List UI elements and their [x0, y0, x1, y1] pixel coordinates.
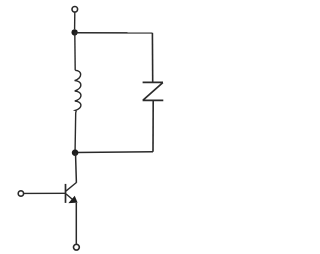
inductor L1 (4-hump coil) [75, 70, 81, 113]
wire (right branch upper lead) [151, 33, 153, 82]
node B (bottom junction dot) [72, 149, 79, 156]
transistor Q1 base bar [65, 184, 67, 203]
transistor Q1 emitter lead (diagonal with arrow) [66, 194, 73, 200]
terminal T2 (left base terminal, open circle) [18, 191, 23, 196]
transistor Q1 emitter arrowhead [69, 197, 77, 203]
wire (top terminal to top junction) [74, 12, 76, 29]
wire (emitter down to bottom terminal) [75, 203, 77, 244]
terminal T1 (top input terminal, open circle) [72, 7, 78, 13]
terminal T3 (bottom emitter terminal, open circle) [74, 244, 80, 250]
wire (base lead to left terminal) [24, 192, 66, 194]
wire (top rail, junction to right branch) [75, 32, 153, 34]
wire (right branch lower lead) [152, 101, 154, 152]
wire (bottom rail, right branch to bottom junction) [75, 151, 153, 154]
wire (top junction down to inductor) [74, 33, 76, 71]
zener diode D1 (Z-shaped breakdown element) [143, 82, 164, 100]
transistor Q1 collector lead (diagonal to base bar) [66, 183, 77, 192]
wire (inductor to bottom junction) [74, 113, 77, 150]
wire (bottom junction to transistor collector bend) [75, 153, 78, 183]
node A (top junction dot) [71, 29, 77, 35]
